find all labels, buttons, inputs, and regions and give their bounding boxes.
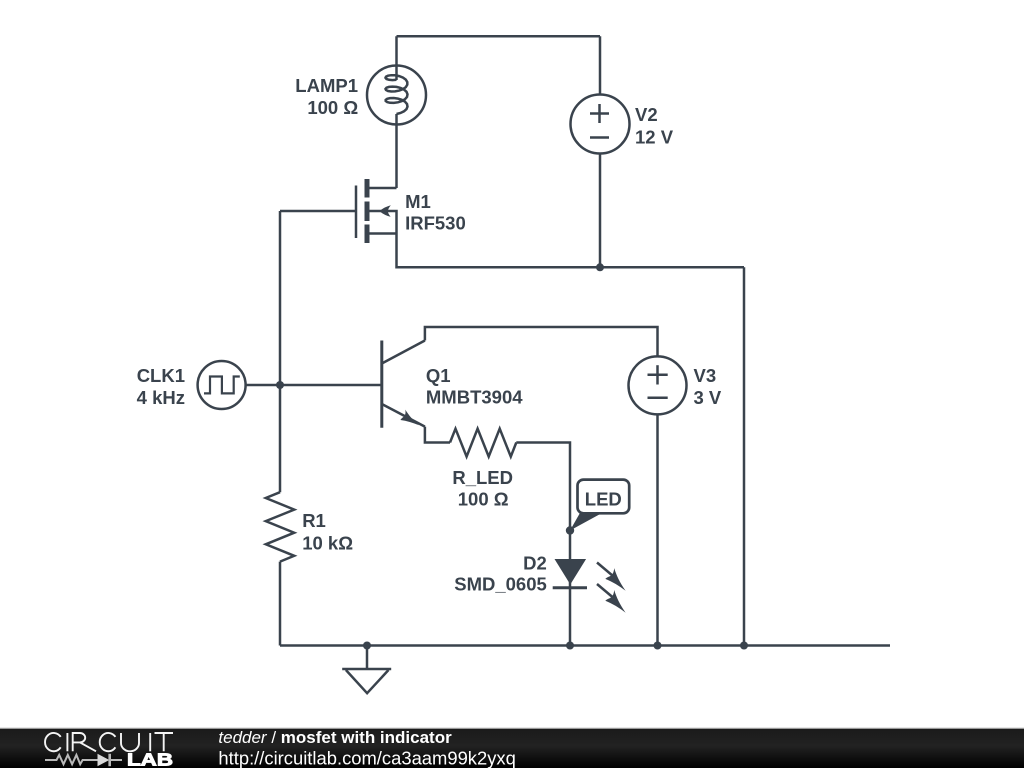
node ground junction: [363, 642, 371, 650]
logo CIRCUIT text: [45, 733, 173, 751]
lamp LAMP1: [367, 66, 426, 125]
svg-text:LAMP1: LAMP1: [295, 75, 358, 96]
svg-text:LAB: LAB: [127, 750, 173, 768]
svg-text:V3: V3: [694, 365, 717, 386]
wire right rail down: [743, 267, 746, 645]
node V2 bottom junction: [596, 263, 604, 271]
transistor Q1: [382, 341, 425, 428]
svg-text:10 kΩ: 10 kΩ: [302, 533, 353, 554]
wire V3 bottom: [656, 414, 659, 645]
node LED column junction: [566, 642, 574, 650]
svg-text:M1: M1: [405, 191, 431, 212]
wire Q1 collector to V3: [425, 327, 658, 356]
wire CLK1 to Q1 base: [246, 384, 382, 387]
svg-text:CLK1: CLK1: [137, 365, 185, 386]
svg-text:D2: D2: [523, 553, 547, 574]
svg-text:MMBT3904: MMBT3904: [426, 386, 523, 407]
wire V2 top stub: [599, 36, 602, 94]
svg-text:100 Ω: 100 Ω: [458, 489, 509, 510]
clock source CLK1: [198, 361, 246, 409]
svg-text:Q1: Q1: [426, 365, 451, 386]
wire emitter to R_LED: [425, 427, 450, 443]
wire left rail upper: [279, 211, 282, 492]
wire M1 source rail: [397, 235, 745, 268]
flag LED bubble: [566, 480, 629, 535]
LED D2: [553, 559, 626, 613]
resistor R_LED: [450, 429, 516, 457]
mosfet M1: [356, 179, 397, 243]
svg-text:LED: LED: [585, 488, 622, 509]
svg-text:R1: R1: [302, 510, 326, 531]
wire R_LED to LED column: [516, 443, 570, 646]
ground: [342, 646, 391, 694]
resistor R1: [266, 492, 294, 561]
wire lamp top stub: [395, 36, 398, 66]
node V3 junction: [654, 642, 662, 650]
svg-text:4 kHz: 4 kHz: [137, 387, 185, 408]
wire left rail lower: [279, 562, 282, 646]
wire V2 bottom to source rail: [599, 154, 602, 268]
svg-text:SMD_0605: SMD_0605: [454, 574, 547, 595]
footer bar: [0, 728, 1024, 768]
wire bottom rail: [280, 644, 890, 647]
svg-text:http://circuitlab.com/ca3aam99: http://circuitlab.com/ca3aam99k2yxq: [218, 747, 515, 768]
node right rail junction: [740, 642, 748, 650]
svg-text:3 V: 3 V: [694, 387, 722, 408]
wire lamp to M1 drain: [395, 125, 398, 189]
svg-text:V2: V2: [635, 104, 658, 125]
logo resistor-diode glyph: [45, 754, 122, 766]
svg-text:tedder / mosfet with indicator: tedder / mosfet with indicator: [218, 728, 452, 747]
node CLK junction: [276, 381, 284, 389]
svg-text:100 Ω: 100 Ω: [307, 97, 358, 118]
wire M1 gate: [280, 210, 356, 213]
voltage source V2: [571, 95, 630, 154]
svg-text:IRF530: IRF530: [405, 213, 466, 234]
svg-text:12 V: 12 V: [635, 126, 674, 147]
voltage source V3: [629, 356, 687, 414]
wire top rail: [397, 35, 601, 38]
svg-text:R_LED: R_LED: [452, 467, 513, 488]
